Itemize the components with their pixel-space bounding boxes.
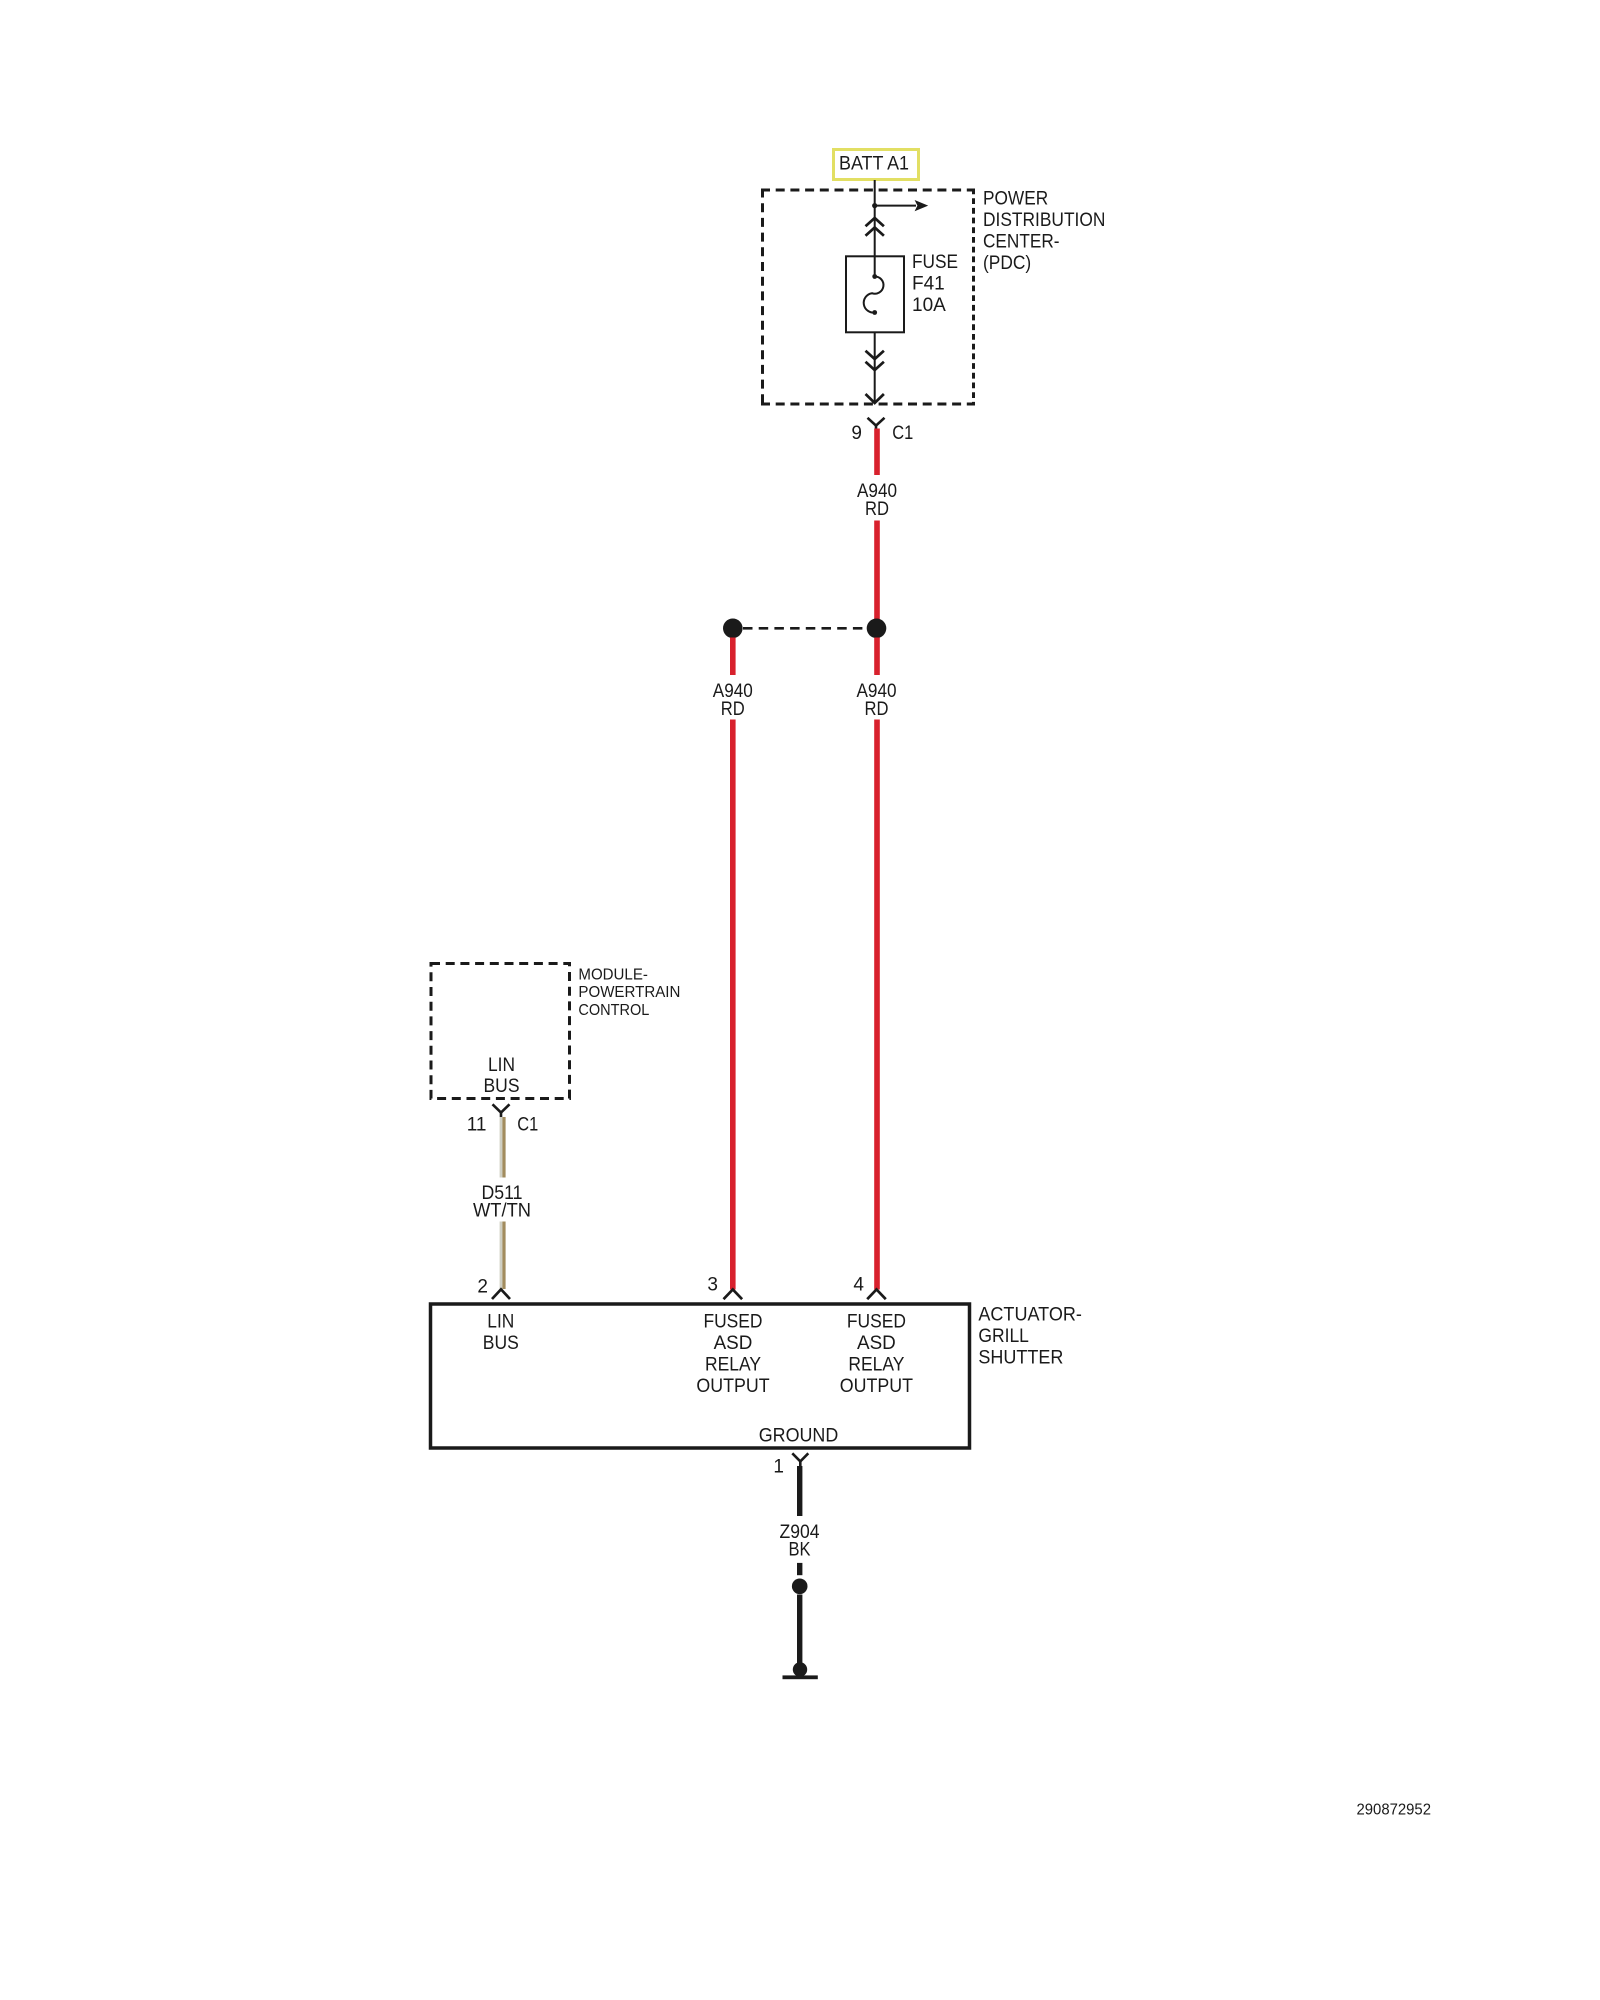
svg-text:BUS: BUS (483, 1333, 519, 1354)
PDC exit arrow chevron at border (866, 394, 884, 403)
svg-text:4: 4 (853, 1275, 864, 1296)
actuator grill shutter label (978, 1305, 1082, 1369)
svg-text:ASD: ASD (714, 1333, 753, 1354)
splice node Z904 (792, 1579, 808, 1595)
svg-text:POWERTRAIN: POWERTRAIN (578, 984, 680, 1001)
ground symbol (793, 1662, 807, 1676)
svg-text:LIN: LIN (488, 1055, 515, 1076)
fuse label FUSE F41 10A (912, 252, 958, 316)
wire A940 RD below right splice (874, 638, 880, 676)
actuator grill shutter box (431, 1304, 970, 1448)
wire below fuse (874, 332, 876, 402)
connector chevrons (up, feed continuation) (866, 218, 884, 226)
connector 9 C1 (Y symbol) (868, 418, 885, 426)
svg-text:RELAY: RELAY (848, 1354, 904, 1375)
svg-text:C1: C1 (517, 1115, 538, 1136)
node (junction in PDC) (872, 203, 877, 208)
PDC label (983, 189, 1105, 275)
svg-text:GRILL: GRILL (978, 1326, 1029, 1347)
svg-text:FUSED: FUSED (703, 1312, 762, 1333)
svg-text:2: 2 (477, 1277, 488, 1298)
svg-text:RD: RD (865, 499, 889, 520)
FUSED ASD RELAY OUTPUT label (pin 3) (696, 1312, 770, 1397)
connector chevrons (down, below fuse) (866, 351, 884, 359)
fuse F41 element (872, 274, 877, 279)
svg-text:SHUTTER: SHUTTER (978, 1348, 1063, 1369)
svg-text:3: 3 (707, 1275, 718, 1296)
jumper dashed wire between splices (743, 627, 867, 630)
svg-text:(PDC): (PDC) (983, 253, 1031, 274)
wire A940 RD (right, long run to pin 4) (874, 720, 880, 1290)
wire from BATT A1 into PDC (874, 180, 876, 276)
fuse F41 box (846, 256, 904, 332)
svg-text:10A: 10A (912, 295, 946, 316)
pin 3 chevron (724, 1290, 743, 1300)
svg-text:11: 11 (467, 1115, 487, 1136)
pin 4 chevron (867, 1290, 886, 1300)
power distribution center PDC box (dashed) (761, 189, 975, 406)
wire A940 RD (874, 521, 880, 620)
module label (578, 966, 680, 1019)
node left (splice) (723, 619, 743, 639)
wire D511 WT/TN lower segment (500, 1222, 506, 1290)
svg-text:BUS: BUS (484, 1076, 520, 1097)
svg-text:WT/TN: WT/TN (473, 1200, 531, 1221)
svg-text:C1: C1 (892, 423, 913, 444)
wire (internal bus arrow to right) (875, 205, 916, 207)
svg-text:BATT A1: BATT A1 (839, 154, 909, 175)
svg-text:RELAY: RELAY (705, 1354, 761, 1375)
wire A940 RD below left splice (730, 638, 736, 676)
module powertrain control box (dashed) (431, 964, 570, 1099)
svg-text:F41: F41 (912, 274, 945, 295)
svg-text:GROUND: GROUND (759, 1425, 839, 1446)
svg-text:CENTER-: CENTER- (983, 232, 1060, 253)
svg-text:ACTUATOR-: ACTUATOR- (978, 1305, 1082, 1326)
svg-text:CONTROL: CONTROL (578, 1002, 649, 1019)
svg-text:FUSE: FUSE (912, 252, 958, 273)
svg-text:OUTPUT: OUTPUT (696, 1376, 770, 1397)
svg-text:ASD: ASD (857, 1333, 896, 1354)
wire A940 RD (left, long run to pin 3) (730, 720, 736, 1290)
wire A940 RD upper segment (874, 429, 880, 476)
svg-text:9: 9 (851, 423, 862, 444)
FUSED ASD RELAY OUTPUT label (pin 4) (840, 1312, 914, 1397)
svg-text:RD: RD (721, 699, 745, 720)
pin 1 Y connector (792, 1453, 808, 1461)
svg-text:LIN: LIN (487, 1312, 514, 1333)
wire Z904 BK upper segment (797, 1466, 802, 1516)
wire Z904 BK lower segment (797, 1595, 802, 1668)
svg-text:1: 1 (773, 1457, 784, 1478)
svg-text:DISTRIBUTION: DISTRIBUTION (983, 210, 1105, 231)
svg-text:BK: BK (789, 1540, 811, 1561)
svg-text:MODULE-: MODULE- (578, 966, 648, 983)
svg-text:OUTPUT: OUTPUT (840, 1376, 914, 1397)
svg-text:POWER: POWER (983, 189, 1048, 210)
wire D511 WT/TN upper segment (white/tan) (500, 1117, 506, 1178)
svg-text:FUSED: FUSED (847, 1312, 906, 1333)
wire Z904 BK stub (797, 1563, 802, 1575)
svg-text:290872952: 290872952 (1357, 1802, 1432, 1819)
svg-text:RD: RD (865, 699, 889, 720)
pin 2 chevron (492, 1289, 510, 1299)
node right (splice) (867, 619, 887, 639)
battery feed label BATT A1 (834, 150, 919, 180)
connector 11 C1 (Y symbol) (493, 1104, 510, 1112)
